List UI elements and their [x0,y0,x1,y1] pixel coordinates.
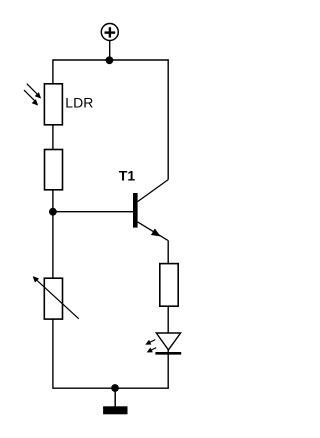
wire base [53,211,133,213]
wire top rail to LDR [52,59,54,84]
svg-text:T1: T1 [119,167,136,183]
label LDR [65,94,93,110]
resistor LDR [44,84,62,125]
wire R3 to LED [167,306,169,333]
node junction ground [111,384,119,392]
label T1 [119,167,136,183]
wire potentiometer to bottom rail [52,319,54,389]
supply terminal + [101,24,118,41]
wire R2 to potentiometer (through base node) [52,190,54,278]
potentiometer P1 [33,277,79,320]
LED D1 [155,333,181,353]
resistor R2 [45,150,63,190]
resistor R3 [160,264,178,307]
ground [103,406,127,414]
wire LED to bottom rail [167,350,169,388]
node junction base [49,208,57,216]
LED light arrows [146,340,157,353]
wire emitter to resistor R3 [167,240,169,263]
wire ground stub [114,388,116,406]
wire supply to top rail [109,41,111,61]
wire bottom rail [53,387,169,389]
wire top rail [53,59,168,61]
wire collector to top rail [167,59,169,179]
svg-text:LDR: LDR [65,94,93,110]
node junction top [106,56,114,64]
transistor T1 [133,180,168,241]
LDR light arrows [24,84,41,106]
wire LDR to resistor R2 [52,125,54,150]
